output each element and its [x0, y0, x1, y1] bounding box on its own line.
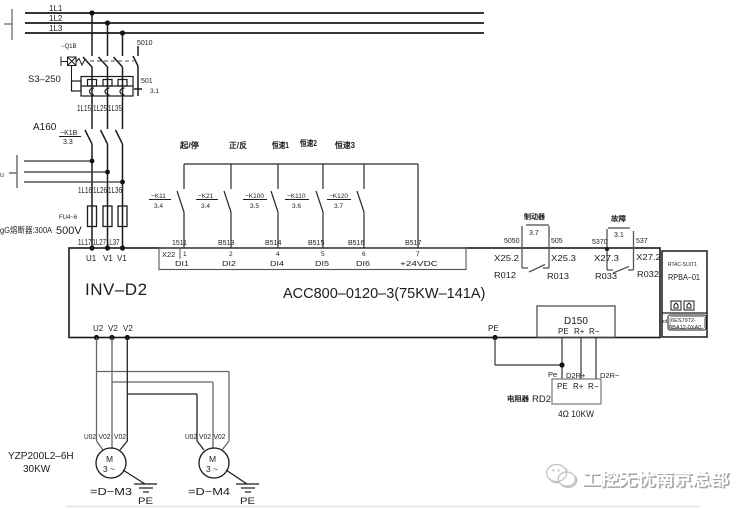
svg-text:1L3: 1L3 [49, 24, 63, 33]
svg-text:YZP200L2–6H: YZP200L2–6H [8, 451, 74, 462]
svg-text:U1: U1 [86, 254, 97, 263]
svg-text:故障: 故障 [611, 214, 626, 223]
svg-text:PE: PE [240, 496, 255, 506]
svg-text:2: 2 [229, 251, 233, 258]
svg-text:S3–250: S3–250 [28, 74, 61, 85]
svg-text:D2R−: D2R− [600, 371, 620, 380]
svg-text:537: 537 [636, 238, 648, 245]
svg-text:U02: U02 [185, 432, 197, 441]
svg-text:gG熔断器:300A: gG熔断器:300A [0, 225, 52, 235]
svg-text:X27.2: X27.2 [636, 253, 662, 262]
svg-text:B515: B515 [308, 240, 324, 247]
svg-text:1L26: 1L26 [93, 186, 107, 195]
svg-text:1L27: 1L27 [93, 238, 107, 247]
svg-text:501: 501 [141, 78, 153, 85]
svg-text:3.5: 3.5 [250, 203, 259, 210]
svg-text:−K110: −K110 [287, 193, 306, 200]
svg-text:正/反: 正/反 [229, 140, 247, 150]
svg-text:R+: R+ [573, 382, 584, 391]
svg-text:起/停: 起/停 [179, 140, 199, 150]
svg-text:−K1B: −K1B [60, 130, 78, 137]
svg-text:V02: V02 [214, 432, 226, 441]
svg-text:R012: R012 [494, 271, 517, 280]
svg-text:5: 5 [321, 251, 325, 258]
svg-text:−K100: −K100 [245, 193, 264, 200]
svg-text:1L15: 1L15 [77, 104, 91, 113]
svg-text:−K11: −K11 [151, 193, 166, 200]
svg-text:5370: 5370 [592, 239, 608, 246]
svg-text:0BA12-0XA0: 0BA12-0XA0 [669, 325, 701, 331]
svg-text:1L17: 1L17 [78, 238, 92, 247]
svg-text:V1: V1 [103, 254, 113, 263]
svg-text:30KW: 30KW [23, 464, 51, 475]
svg-text:工控无忧南京总部: 工控无忧南京总部 [582, 469, 730, 489]
svg-text:3 ~: 3 ~ [103, 464, 115, 474]
svg-text:R032: R032 [637, 270, 660, 279]
svg-text:U2: U2 [93, 324, 104, 333]
svg-text:X22: X22 [162, 250, 175, 259]
svg-text:DI4: DI4 [270, 259, 284, 268]
svg-text:3.4: 3.4 [201, 203, 210, 210]
svg-text:1L25: 1L25 [93, 104, 107, 113]
svg-text:u: u [0, 172, 4, 179]
svg-text:DI5: DI5 [315, 259, 329, 268]
svg-text:6: 6 [362, 251, 366, 258]
svg-text:3 ~: 3 ~ [206, 464, 218, 474]
svg-text:−Q1B: −Q1B [61, 44, 77, 50]
svg-text:V02: V02 [99, 432, 111, 441]
svg-text:3.4: 3.4 [154, 203, 163, 210]
svg-text:1L1: 1L1 [49, 4, 63, 13]
svg-text:D150: D150 [564, 316, 588, 327]
svg-text:3.1: 3.1 [150, 88, 159, 95]
svg-text:DI6: DI6 [356, 259, 370, 268]
svg-text:4Ω 10KW: 4Ω 10KW [558, 409, 594, 420]
svg-text:1L2: 1L2 [49, 14, 63, 23]
svg-text:INV–D2: INV–D2 [85, 280, 148, 299]
svg-text:B517: B517 [405, 240, 421, 247]
svg-text:5010: 5010 [137, 40, 153, 47]
svg-text:RPBA–01: RPBA–01 [668, 272, 700, 282]
svg-text:V2: V2 [108, 324, 118, 333]
svg-text:1L16: 1L16 [78, 186, 92, 195]
svg-text:恒速2: 恒速2 [300, 138, 317, 148]
svg-text:3.7: 3.7 [529, 230, 539, 237]
svg-text:V02: V02 [199, 432, 211, 441]
svg-text:3.1: 3.1 [614, 232, 624, 239]
svg-text:B516: B516 [348, 240, 364, 247]
svg-text:R−: R− [589, 327, 600, 336]
svg-text:DI1: DI1 [175, 259, 189, 268]
svg-text:DI2: DI2 [222, 259, 236, 268]
svg-text:PE: PE [138, 496, 153, 506]
svg-text:PE: PE [557, 382, 568, 391]
svg-text:+24VDC: +24VDC [400, 259, 439, 268]
svg-text:5050: 5050 [504, 238, 520, 245]
svg-text:X25.2: X25.2 [494, 254, 520, 263]
svg-text:M: M [106, 454, 113, 464]
svg-text:V02: V02 [114, 432, 126, 441]
svg-text:RTAC-SL0T1: RTAC-SL0T1 [668, 262, 697, 268]
svg-text:xd: xd [662, 319, 668, 325]
svg-text:恒速1: 恒速1 [272, 140, 289, 150]
svg-text:6ES7972-: 6ES7972- [671, 318, 696, 324]
svg-text:1L36: 1L36 [108, 186, 122, 195]
svg-text:R013: R013 [547, 272, 570, 281]
svg-text:−K21: −K21 [198, 193, 214, 200]
svg-text:X25.3: X25.3 [551, 254, 577, 263]
svg-text:=D−M4: =D−M4 [188, 487, 231, 498]
svg-text:1511: 1511 [172, 240, 187, 247]
svg-text:Pe: Pe [548, 370, 557, 379]
svg-text:3.7: 3.7 [334, 203, 343, 210]
svg-text:B513: B513 [218, 240, 234, 247]
svg-text:M: M [209, 454, 216, 464]
svg-text:505: 505 [551, 238, 563, 245]
svg-text:PE: PE [558, 327, 569, 336]
svg-text:R033: R033 [595, 272, 618, 281]
svg-text:500V: 500V [56, 225, 82, 237]
svg-text:FU4~6: FU4~6 [59, 215, 78, 221]
svg-text:3.3: 3.3 [63, 139, 73, 146]
svg-text:A160: A160 [33, 122, 57, 133]
svg-text:−K120: −K120 [329, 193, 348, 200]
svg-text:1: 1 [183, 251, 187, 258]
svg-text:U02: U02 [84, 432, 96, 441]
svg-text:PE: PE [488, 324, 499, 333]
svg-text:7: 7 [416, 251, 420, 258]
svg-text:X27.3: X27.3 [594, 254, 620, 263]
svg-text:1L35: 1L35 [108, 104, 122, 113]
svg-text:制动器: 制动器 [524, 212, 546, 221]
svg-text:3.6: 3.6 [292, 203, 301, 210]
svg-text:R−: R− [588, 382, 599, 391]
svg-text:恒速3: 恒速3 [335, 140, 356, 150]
svg-text:R+: R+ [574, 327, 585, 336]
svg-text:V1: V1 [117, 254, 127, 263]
svg-text:V2: V2 [123, 324, 133, 333]
svg-text:=D−M3: =D−M3 [90, 487, 133, 498]
svg-text:电阻器: 电阻器 [507, 394, 530, 403]
svg-text:ACC800–0120–3(75KW–141A): ACC800–0120–3(75KW–141A) [283, 286, 485, 302]
svg-text:4: 4 [276, 251, 280, 258]
svg-text:RD2: RD2 [532, 394, 551, 405]
svg-text:B514: B514 [265, 240, 281, 247]
